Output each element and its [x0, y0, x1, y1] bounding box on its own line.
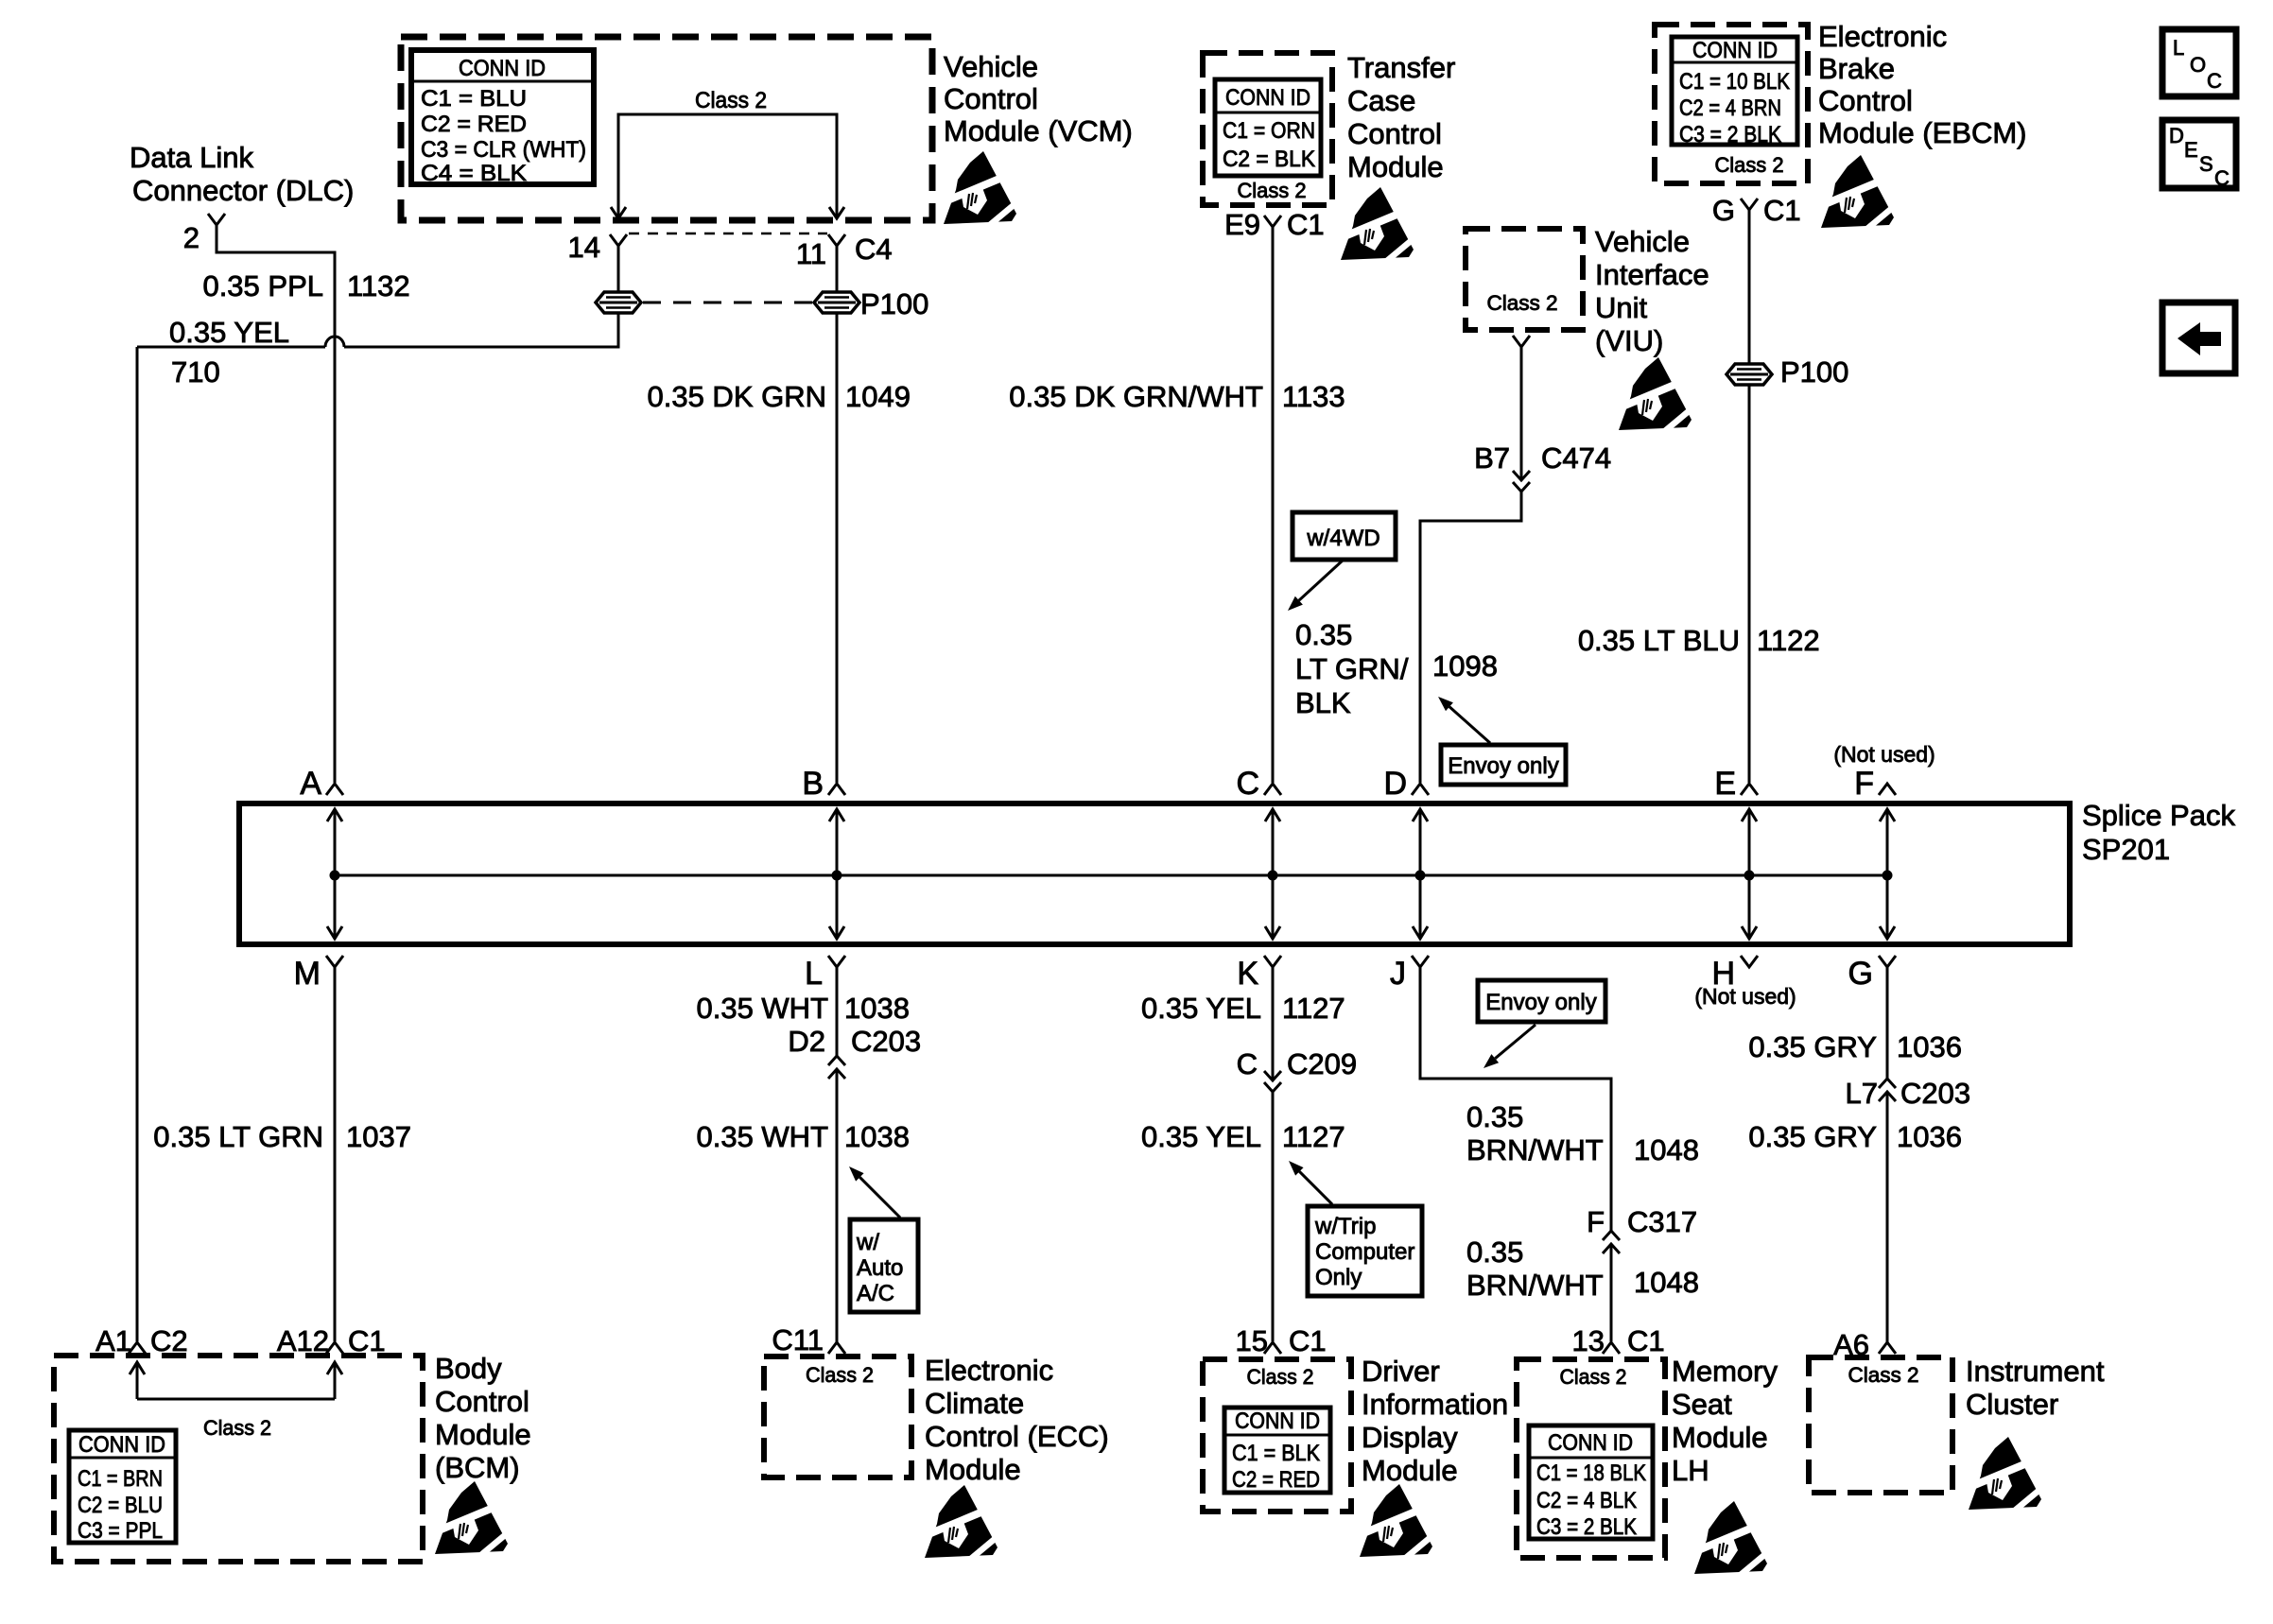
svg-text:Control: Control: [944, 82, 1038, 115]
svg-text:Class 2: Class 2: [695, 88, 767, 113]
wire: DLC pin2 to PPL vertical: [217, 225, 335, 783]
svg-text:Class 2: Class 2: [1247, 1365, 1314, 1389]
svg-text:0.35 WHT: 0.35 WHT: [696, 1120, 828, 1153]
Vehicle Interface Unit dashed box: [1466, 229, 1583, 330]
svg-text:Class 2: Class 2: [1848, 1363, 1919, 1387]
svg-text:Splice Pack: Splice Pack: [2082, 799, 2235, 832]
svg-text:BLK: BLK: [1295, 686, 1351, 719]
svg-text:G: G: [1848, 956, 1873, 992]
svg-text:Data Link: Data Link: [130, 141, 253, 174]
svg-text:CONN ID: CONN ID: [1235, 1408, 1320, 1434]
splice internal down arrow x=354: [334, 875, 337, 939]
svg-text:C317: C317: [1627, 1205, 1697, 1238]
svg-text:D: D: [1383, 766, 1407, 802]
svg-text:0.35 PPL: 0.35 PPL: [202, 269, 323, 302]
svg-text:Driver: Driver: [1362, 1355, 1440, 1388]
svg-text:C1 = 10 BLK: C1 = 10 BLK: [1679, 69, 1790, 95]
Electronic Brake Control Module dashed box: [1655, 25, 1808, 183]
splice internal up arrow x=354: [334, 809, 337, 875]
MSM CONN ID table: [1529, 1425, 1653, 1539]
svg-text:1133: 1133: [1282, 380, 1345, 413]
wire: 0.35 YEL 710 horizontal with hop over PPL: [137, 313, 618, 347]
arrowhead into pin 11: [829, 207, 844, 218]
svg-text:CONN ID: CONN ID: [1692, 38, 1778, 63]
BCM ESD symbol: [435, 1481, 511, 1559]
svg-text:C3 = PPL: C3 = PPL: [78, 1518, 163, 1544]
splice junction dot at x=1996: [1883, 871, 1893, 881]
w/4WD callout box: [1293, 512, 1396, 560]
svg-text:Interface: Interface: [1595, 258, 1709, 291]
svg-text:A: A: [300, 766, 321, 802]
svg-text:Only: Only: [1315, 1265, 1362, 1290]
splice terminal H (bottom): [1741, 956, 1758, 967]
svg-text:A/C: A/C: [857, 1281, 894, 1306]
svg-text:Class 2: Class 2: [1560, 1365, 1627, 1389]
splice terminal B (top): [828, 784, 845, 795]
MSM ESD symbol: [1694, 1501, 1770, 1579]
svg-text:Control (ECC): Control (ECC): [925, 1420, 1109, 1453]
svg-text:Module: Module: [1362, 1454, 1458, 1487]
svg-text:1127: 1127: [1282, 1120, 1345, 1153]
splice internal down arrow x=1346: [1272, 875, 1275, 939]
svg-text:11: 11: [796, 237, 826, 270]
svg-text:C203: C203: [1900, 1077, 1970, 1110]
svg-text:Control: Control: [435, 1385, 529, 1418]
svg-text:1036: 1036: [1897, 1120, 1962, 1153]
wire K down : 0.35 YEL 1127: [1272, 967, 1275, 1080]
wire pin11 down to splice B : 0.35 DK GRN 1049: [836, 246, 839, 783]
splice terminal L (bottom): [828, 956, 845, 967]
Envoy only callout (lower): [1478, 980, 1605, 1022]
svg-text:Class 2: Class 2: [806, 1363, 874, 1387]
svg-text:710: 710: [171, 355, 220, 389]
Envoy only arrow (lower): [1495, 1025, 1536, 1059]
svg-text:C11: C11: [772, 1323, 824, 1356]
svg-text:14: 14: [568, 231, 600, 264]
wire C209 to DID pin 15: [1272, 1092, 1275, 1341]
P100 dashed link: [643, 302, 812, 304]
svg-text:Module: Module: [1347, 150, 1444, 183]
Body Control Module dashed box: [54, 1356, 423, 1562]
svg-text:C3 = 2 BLK: C3 = 2 BLK: [1536, 1514, 1637, 1540]
svg-text:D2: D2: [788, 1025, 825, 1058]
svg-text:1038: 1038: [844, 992, 910, 1025]
wire C317 to MSM pin 13: [1610, 1244, 1613, 1341]
svg-text:Display: Display: [1362, 1421, 1458, 1454]
svg-text:C1: C1: [348, 1324, 386, 1357]
svg-text:C2 = 4 BLK: C2 = 4 BLK: [1536, 1488, 1637, 1513]
svg-text:J: J: [1390, 956, 1406, 992]
svg-text:E: E: [2184, 138, 2198, 162]
wire G down : 0.35 GRY 1036: [1886, 967, 1889, 1079]
svg-text:0.35 LT BLU: 0.35 LT BLU: [1578, 624, 1740, 657]
svg-text:C1: C1: [1287, 208, 1325, 241]
svg-text:Information: Information: [1362, 1388, 1508, 1421]
svg-text:1049: 1049: [845, 380, 911, 413]
svg-text:Envoy only: Envoy only: [1485, 990, 1596, 1015]
svg-text:Class 2: Class 2: [1238, 179, 1307, 202]
svg-text:SP201: SP201: [2082, 833, 2170, 866]
splice terminal A (top): [326, 784, 343, 795]
svg-text:C: C: [1237, 1047, 1258, 1080]
svg-text:C1: C1: [1289, 1324, 1327, 1357]
splice junction dot at x=1850: [1744, 871, 1755, 881]
BCM CONN ID table: [69, 1430, 176, 1543]
wire L down : 0.35 WHT 1038: [836, 967, 839, 1056]
svg-text:Class 2: Class 2: [203, 1416, 271, 1440]
VCM ESD symbol: [944, 151, 1019, 229]
svg-text:0.35 DK GRN/WHT: 0.35 DK GRN/WHT: [1009, 380, 1263, 413]
svg-text:C4 = BLK: C4 = BLK: [421, 161, 527, 186]
svg-text:E: E: [1714, 766, 1736, 802]
svg-text:L: L: [805, 956, 823, 992]
splice internal down arrow x=885: [836, 875, 839, 939]
wire EBCM down through P100 to splice E: [1748, 210, 1751, 783]
Driver Information Display dashed box: [1203, 1359, 1351, 1512]
svg-text:C203: C203: [851, 1025, 921, 1058]
svg-text:0.35 GRY: 0.35 GRY: [1748, 1030, 1877, 1063]
P100 inline connector (EBCM): [1726, 364, 1772, 385]
svg-text:C2: C2: [150, 1324, 188, 1357]
svg-text:C474: C474: [1541, 441, 1611, 475]
svg-text:Control: Control: [1818, 84, 1913, 117]
svg-text:w/: w/: [856, 1230, 879, 1255]
svg-text:S: S: [2199, 152, 2213, 176]
svg-text:P100: P100: [860, 287, 928, 320]
svg-text:F: F: [1854, 766, 1874, 802]
LOC reference box: [2162, 29, 2236, 96]
svg-text:0.35 YEL: 0.35 YEL: [169, 316, 289, 349]
Envoy only callout (upper): [1441, 745, 1566, 785]
splice terminal F (top): [1879, 784, 1896, 795]
svg-text:G: G: [1712, 194, 1735, 227]
svg-text:0.35 YEL: 0.35 YEL: [1141, 992, 1261, 1025]
w/Auto A/C callout box: [850, 1219, 918, 1312]
TCCM ESD symbol: [1341, 187, 1416, 265]
svg-text:Module: Module: [925, 1453, 1021, 1486]
svg-text:Memory: Memory: [1672, 1355, 1778, 1388]
svg-text:C2 = RED: C2 = RED: [421, 112, 527, 137]
svg-text:Control: Control: [1347, 117, 1442, 150]
svg-text:0.35: 0.35: [1466, 1235, 1523, 1269]
svg-text:Module: Module: [1672, 1421, 1768, 1454]
DESC reference box: [2162, 120, 2236, 188]
Transfer Case Control Module dashed box: [1203, 53, 1332, 205]
svg-text:Electronic: Electronic: [925, 1354, 1053, 1387]
svg-text:F: F: [1587, 1205, 1605, 1238]
svg-text:CONN ID: CONN ID: [78, 1432, 165, 1458]
svg-text:CONN ID: CONN ID: [1225, 85, 1310, 111]
splice internal up arrow x=1996: [1886, 809, 1889, 875]
svg-text:1098: 1098: [1432, 649, 1498, 682]
wire C203 to ECC C11: [836, 1069, 839, 1342]
svg-text:Instrument: Instrument: [1966, 1355, 2105, 1388]
svg-text:CONN ID: CONN ID: [459, 56, 546, 81]
VCM CONN ID table: [411, 50, 594, 184]
svg-text:0.35 DK GRN: 0.35 DK GRN: [647, 380, 826, 413]
svg-text:LT GRN/: LT GRN/: [1295, 652, 1409, 685]
splice terminal G (bottom): [1879, 956, 1896, 967]
w/Auto A/C arrow: [859, 1177, 900, 1218]
svg-text:C4: C4: [855, 233, 893, 266]
splice internal up arrow x=1346: [1272, 809, 1275, 875]
svg-text:1036: 1036: [1897, 1030, 1962, 1063]
svg-text:B7: B7: [1474, 441, 1510, 475]
svg-text:0.35 GRY: 0.35 GRY: [1748, 1120, 1877, 1153]
svg-text:Climate: Climate: [925, 1387, 1024, 1420]
svg-text:1132: 1132: [347, 269, 410, 302]
svg-text:BRN/WHT: BRN/WHT: [1466, 1269, 1604, 1302]
svg-text:Electronic: Electronic: [1818, 20, 1947, 53]
Instrument Cluster dashed box: [1809, 1357, 1952, 1493]
EBCM ESD symbol: [1821, 155, 1897, 233]
splice internal up arrow x=885: [836, 809, 839, 875]
w/4WD arrow: [1299, 560, 1344, 600]
wire TCCM to splice C : 0.35 DK GRN/WHT 1133: [1272, 227, 1275, 783]
svg-text:L: L: [2173, 36, 2184, 60]
svg-text:1037: 1037: [346, 1120, 411, 1153]
svg-text:13: 13: [1572, 1324, 1605, 1357]
svg-text:C1: C1: [1627, 1324, 1665, 1357]
svg-text:0.35 YEL: 0.35 YEL: [1141, 1120, 1261, 1153]
splice terminal C (top): [1264, 784, 1281, 795]
svg-text:Vehicle: Vehicle: [1595, 225, 1690, 258]
splice terminal J (bottom): [1412, 956, 1429, 967]
svg-text:Seat: Seat: [1672, 1388, 1732, 1421]
svg-text:C3 = CLR (WHT): C3 = CLR (WHT): [421, 137, 586, 163]
splice terminal M (bottom): [326, 956, 343, 967]
svg-text:L7: L7: [1846, 1077, 1878, 1110]
splice terminal K (bottom): [1264, 956, 1281, 967]
ECC ESD symbol: [925, 1485, 1000, 1563]
svg-text:C2 = RED: C2 = RED: [1232, 1467, 1320, 1493]
wire M to BCM A12 : 0.35 LT GRN 1037: [334, 967, 337, 1341]
wire: YEL down to BCM: [136, 347, 139, 1341]
svg-text:Class 2: Class 2: [1715, 153, 1784, 177]
splice internal down arrow x=1850: [1748, 875, 1751, 939]
svg-text:w/4WD: w/4WD: [1306, 526, 1379, 551]
splice junction dot at x=1346: [1268, 871, 1278, 881]
svg-text:Body: Body: [435, 1352, 502, 1385]
svg-text:15: 15: [1236, 1324, 1268, 1357]
splice terminal D (top): [1412, 784, 1429, 795]
svg-text:Cluster: Cluster: [1966, 1388, 2058, 1421]
svg-text:Transfer: Transfer: [1347, 51, 1455, 84]
wire J to C317 path: [1420, 967, 1611, 1231]
svg-text:Brake: Brake: [1818, 52, 1895, 85]
svg-text:(Not used): (Not used): [1694, 984, 1796, 1009]
svg-text:C: C: [1236, 766, 1259, 802]
svg-text:C: C: [2207, 69, 2222, 93]
Vehicle Control Module (VCM) dashed box: [401, 37, 932, 220]
Electronic Climate Control dashed box: [764, 1356, 911, 1477]
splice pack internal bus: [335, 874, 1887, 877]
svg-text:C2 = 4 BRN: C2 = 4 BRN: [1679, 95, 1781, 121]
svg-text:C1 = BRN: C1 = BRN: [78, 1466, 163, 1492]
svg-text:D: D: [2169, 124, 2184, 147]
splice internal down arrow x=1996: [1886, 875, 1889, 939]
svg-text:C1 = ORN: C1 = ORN: [1223, 118, 1315, 144]
wire C203 to IC pin A6: [1886, 1092, 1889, 1342]
svg-text:0.35 LT GRN: 0.35 LT GRN: [153, 1120, 323, 1153]
svg-text:1127: 1127: [1282, 992, 1345, 1025]
BCM internal arrows and link: [136, 1362, 139, 1399]
svg-text:w/Trip: w/Trip: [1314, 1214, 1376, 1239]
DID ESD symbol: [1360, 1484, 1435, 1562]
Memory Seat Module dashed box: [1517, 1359, 1665, 1558]
svg-text:Case: Case: [1347, 84, 1415, 117]
wire VIU to C474: [1520, 347, 1523, 480]
splice internal up arrow x=1850: [1748, 809, 1751, 875]
P100 inline connector (right): [814, 292, 859, 313]
svg-text:C: C: [2214, 166, 2230, 190]
svg-text:K: K: [1237, 956, 1258, 992]
svg-text:Module: Module: [435, 1418, 531, 1451]
svg-text:LH: LH: [1672, 1454, 1709, 1487]
wire C474 down to splice D: [1420, 492, 1521, 783]
svg-text:2: 2: [183, 221, 200, 254]
splice junction dot at x=354: [330, 871, 340, 881]
IC ESD symbol: [1969, 1437, 2044, 1514]
svg-text:CONN ID: CONN ID: [1548, 1430, 1633, 1456]
wire pin14 down to P100: [617, 246, 620, 292]
svg-text:C2 = BLK: C2 = BLK: [1223, 147, 1315, 172]
svg-text:Computer: Computer: [1315, 1239, 1414, 1265]
svg-text:BRN/WHT: BRN/WHT: [1466, 1133, 1604, 1166]
svg-text:Unit: Unit: [1595, 291, 1648, 324]
svg-text:O: O: [2190, 53, 2206, 77]
svg-text:Module (EBCM): Module (EBCM): [1818, 116, 2027, 149]
svg-text:A12: A12: [277, 1324, 329, 1357]
splice internal down arrow x=1502: [1419, 875, 1422, 939]
svg-text:C2 = BLU: C2 = BLU: [78, 1493, 163, 1518]
svg-text:(BCM): (BCM): [435, 1451, 520, 1484]
VIU ESD symbol: [1619, 357, 1694, 435]
svg-text:1048: 1048: [1634, 1266, 1699, 1299]
svg-text:E9: E9: [1224, 208, 1260, 241]
svg-text:C1 = BLU: C1 = BLU: [421, 86, 527, 112]
svg-text:0.35: 0.35: [1466, 1100, 1523, 1133]
EBCM CONN ID table: [1672, 37, 1797, 145]
w/Trip Computer Only callout box: [1308, 1206, 1422, 1296]
svg-text:C209: C209: [1287, 1047, 1357, 1080]
svg-text:Envoy only: Envoy only: [1448, 753, 1558, 779]
TCCM CONN ID table: [1215, 79, 1321, 176]
P100 inline connector (left): [596, 292, 641, 313]
w/Trip arrow: [1299, 1171, 1332, 1204]
svg-text:P100: P100: [1780, 355, 1848, 389]
svg-text:C3 = 2 BLK: C3 = 2 BLK: [1679, 122, 1781, 147]
dashed link pin14-pin11 (connector C4): [629, 233, 827, 235]
svg-text:C1 = BLK: C1 = BLK: [1232, 1441, 1320, 1466]
splice terminal E (top): [1741, 784, 1758, 795]
svg-text:0.35: 0.35: [1295, 618, 1352, 651]
splice internal up arrow x=1502: [1419, 809, 1422, 875]
back arrow box: [2162, 302, 2235, 373]
VIU pin fork: [1513, 336, 1530, 347]
svg-text:C1: C1: [1763, 194, 1801, 227]
svg-text:Connector (DLC): Connector (DLC): [132, 174, 354, 207]
svg-text:M: M: [294, 956, 321, 992]
arrowhead into pin 14: [611, 207, 626, 218]
svg-text:1122: 1122: [1757, 624, 1820, 657]
svg-text:Module (VCM): Module (VCM): [944, 114, 1133, 147]
svg-text:C1 = 18 BLK: C1 = 18 BLK: [1536, 1460, 1646, 1486]
svg-text:(Not used): (Not used): [1833, 742, 1935, 767]
svg-text:A1: A1: [95, 1324, 131, 1357]
svg-text:0.35 WHT: 0.35 WHT: [696, 992, 828, 1025]
svg-text:Auto: Auto: [857, 1255, 903, 1281]
svg-text:Class 2: Class 2: [1487, 291, 1558, 315]
svg-text:(VIU): (VIU): [1595, 324, 1663, 357]
svg-text:1048: 1048: [1634, 1133, 1699, 1166]
DID CONN ID table: [1224, 1408, 1330, 1493]
Envoy only arrow (upper): [1449, 707, 1490, 743]
splice junction dot at x=885: [832, 871, 842, 881]
splice junction dot at x=1502: [1415, 871, 1426, 881]
svg-text:Vehicle: Vehicle: [944, 50, 1038, 83]
svg-text:B: B: [802, 766, 824, 802]
Splice Pack SP201 box: [239, 803, 2070, 944]
svg-text:1038: 1038: [844, 1120, 910, 1153]
